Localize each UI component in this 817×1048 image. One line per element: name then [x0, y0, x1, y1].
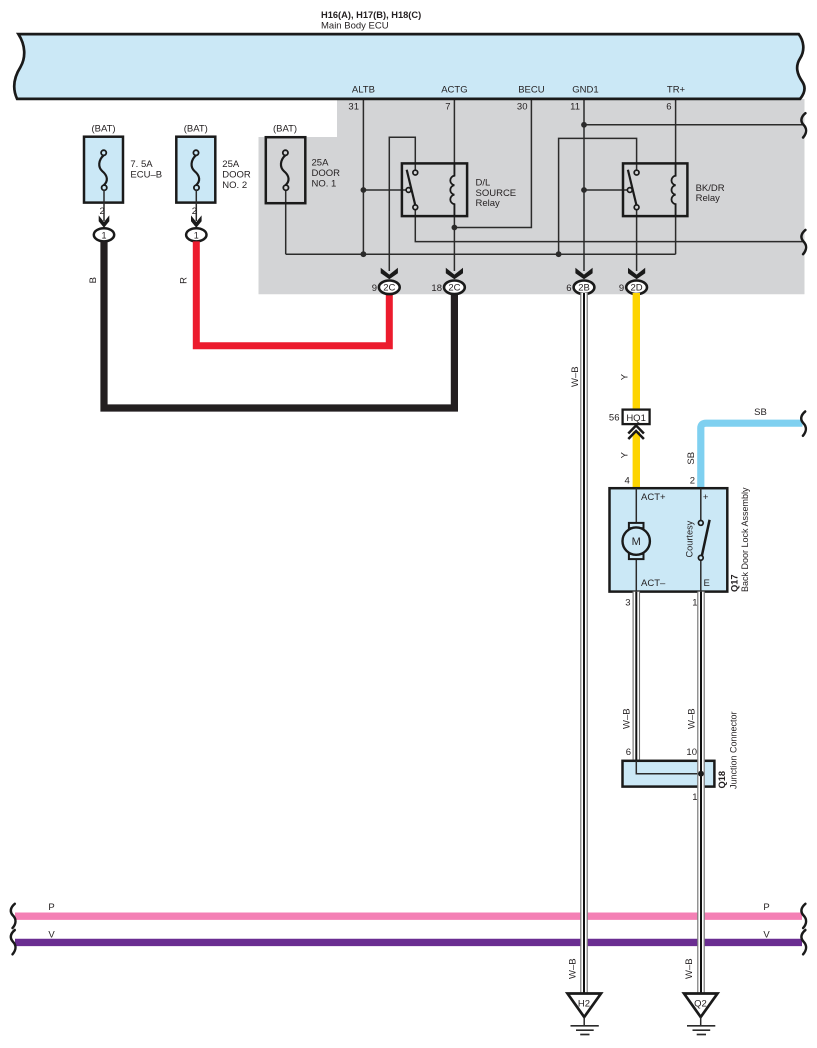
svg-text:(BAT): (BAT): [91, 123, 115, 134]
wire horizontal bus y=254 (fuse DOOR NO.1 / ALTB / BK-DR coil): [286, 253, 676, 255]
wire courtesy switch top lead: [700, 488, 702, 520]
svg-text:7. 5A: 7. 5A: [130, 159, 153, 170]
fuse F3 25A DOOR NO.1 box: [266, 137, 306, 203]
svg-text:11: 11: [570, 102, 580, 113]
wire W-B (2B pin6 to ground H2): [580, 293, 587, 994]
relay U1 switch blade: [407, 170, 415, 205]
motor M top brush cap: [629, 523, 644, 528]
svg-text:7: 7: [445, 102, 450, 113]
wire W-B (Q17 pin3 to Q18 pin6): [633, 592, 640, 761]
svg-text:V: V: [763, 929, 770, 940]
wire R thick (fuse F2 to 2C pin 9): [196, 241, 389, 345]
svg-text:9: 9: [619, 283, 624, 294]
svg-text:6: 6: [566, 283, 571, 294]
wire GND1 bus to right edge (exits page): [584, 124, 805, 126]
courtesy switch top contact: [698, 521, 703, 526]
svg-text:Relay: Relay: [696, 193, 721, 204]
wire D/L coil bottom / junction to 2C pin18: [453, 204, 455, 271]
connector oval 2C pin 9: [379, 281, 400, 295]
svg-text:H2: H2: [578, 998, 590, 1009]
wire SB thick (right edge to Q17 +): [701, 423, 803, 489]
relay U2 BK/DR Relay box: [623, 163, 687, 216]
break squiggle P left: [11, 904, 16, 928]
svg-text:1: 1: [692, 792, 697, 803]
relay U2 top contact: [634, 170, 639, 175]
relay U2 bottom contact: [634, 205, 639, 210]
motor M bottom brush cap: [629, 554, 644, 559]
wire F2 to connector: [195, 190, 197, 221]
svg-text:3: 3: [625, 597, 630, 608]
fuse F1 7.5A ECU-B box: [84, 137, 123, 203]
svg-text:10: 10: [686, 747, 697, 758]
svg-text:NO. 2: NO. 2: [222, 180, 247, 191]
break squiggle grey bus 2 right edge: [801, 230, 806, 254]
relay U1 movable contact: [406, 188, 411, 193]
fuse F1 element: [99, 155, 107, 185]
arrow into 2B pin 6: [575, 268, 592, 279]
Q17 Back Door Lock Assembly box: [610, 488, 728, 591]
svg-text:B: B: [88, 277, 99, 283]
wire W-B (Q17 pin1 through Q18 to ground Q2): [697, 592, 704, 994]
wire ALTB to D/L relay movable contact: [363, 189, 406, 191]
svg-text:Back Door Lock Assembly: Back Door Lock Assembly: [740, 487, 750, 592]
svg-text:30: 30: [517, 102, 528, 113]
wire fuse DOOR NO.1 drop to bus: [285, 190, 287, 254]
svg-text:E: E: [704, 578, 710, 589]
svg-text:(BAT): (BAT): [184, 123, 208, 134]
svg-text:Y: Y: [620, 451, 631, 458]
connector oval 1 (F1): [94, 228, 114, 241]
fuse F2 25A DOOR NO.2 box: [176, 137, 215, 203]
svg-text:Junction Connector: Junction Connector: [729, 711, 739, 789]
wire courtesy switch bottom lead: [700, 560, 702, 591]
ground Q2 triangle: [684, 994, 718, 1018]
connector HQ1 box: [623, 410, 650, 425]
connector oval 2C pin 18: [444, 281, 465, 295]
svg-text:SB: SB: [686, 452, 697, 465]
wire V thick (violet): [15, 939, 802, 946]
arrow into 2C pin 18: [446, 268, 463, 279]
arrow into 2D pin 9: [628, 268, 645, 279]
svg-text:DOOR: DOOR: [312, 168, 341, 179]
ground H2 symbol: [583, 1017, 585, 1026]
svg-text:6: 6: [626, 747, 631, 758]
svg-text:NO. 1: NO. 1: [312, 179, 337, 190]
relay U2 switch blade: [628, 170, 636, 205]
svg-text:25A: 25A: [312, 158, 330, 169]
svg-text:56: 56: [609, 413, 620, 424]
node junction inside Q18: [698, 771, 704, 777]
courtesy switch blade: [702, 520, 710, 556]
svg-text:+: +: [703, 492, 709, 503]
svg-text:GND1: GND1: [572, 85, 598, 96]
relay U1 top contact: [413, 170, 418, 175]
wire motor to ACT-: [635, 559, 637, 592]
svg-text:Relay: Relay: [476, 198, 501, 209]
svg-text:1: 1: [692, 597, 697, 608]
wire Y thick upper (2D to HQ1): [633, 293, 640, 411]
node junction GND1/BK-DR relay: [581, 187, 587, 193]
svg-text:ACT–: ACT–: [641, 578, 666, 589]
motor M body: [623, 527, 650, 554]
svg-text:4: 4: [625, 476, 630, 487]
svg-text:31: 31: [348, 102, 359, 113]
svg-text:Y: Y: [620, 373, 631, 380]
connector pass-through chevrons under HQ1: [628, 426, 644, 440]
connector oval 2B pin 6: [574, 281, 595, 295]
connector oval 2D pin 9: [626, 281, 647, 295]
relay U1 coil: [450, 164, 454, 217]
svg-text:HQ1: HQ1: [626, 413, 646, 424]
wire Y thick lower (HQ1 to Q17 ACT+): [633, 432, 640, 490]
svg-text:9: 9: [372, 283, 377, 294]
svg-text:6: 6: [666, 102, 671, 113]
relay U2 movable contact: [627, 188, 632, 193]
relay U1 bottom contact: [413, 205, 418, 210]
svg-text:W–B: W–B: [621, 708, 632, 729]
wire F1 to connector: [103, 190, 105, 221]
wire connector 2C pin9 riser to D/L relay top contact: [389, 137, 415, 271]
svg-text:V: V: [48, 929, 55, 940]
svg-text:2: 2: [100, 206, 105, 217]
node junction ALTB/bus: [361, 251, 367, 257]
arrow into connector 1 (F2): [191, 215, 202, 227]
svg-text:BECU: BECU: [518, 85, 545, 96]
svg-text:W–B: W–B: [568, 958, 579, 979]
wire BK/DR coil bottom elbow to bus: [675, 204, 677, 254]
Main Body ECU band: [14, 34, 804, 99]
node junction ALTB/relay: [361, 187, 367, 193]
wire BK/DR relay switch output to 2D: [636, 210, 638, 271]
svg-text:Q2: Q2: [694, 998, 707, 1009]
arrow into connector 1 (F1): [99, 215, 110, 227]
svg-text:ECU–B: ECU–B: [130, 170, 162, 181]
wire riser bus to BK/DR relay top contact: [559, 138, 637, 254]
svg-text:18: 18: [431, 283, 442, 294]
node junction riser/bus: [556, 251, 562, 257]
svg-text:2D: 2D: [631, 283, 643, 294]
wire B thick (fuse F1 to 2C pin 18): [104, 241, 454, 408]
svg-text:1: 1: [194, 230, 199, 240]
junction connector Q18 box: [623, 761, 715, 787]
svg-text:R: R: [178, 277, 189, 284]
svg-text:W–B: W–B: [686, 708, 697, 729]
wire D/L relay output bus to right edge (exits page): [415, 210, 804, 242]
svg-text:Q17: Q17: [730, 574, 740, 592]
wire ACTG pin 7 to D/L relay coil: [453, 99, 455, 176]
connector oval 1 (F2): [186, 228, 206, 241]
svg-text:DOOR: DOOR: [222, 170, 251, 181]
wire Q17 ACT+ to motor: [635, 488, 637, 523]
svg-text:Q18: Q18: [717, 771, 727, 789]
svg-text:P: P: [763, 902, 769, 913]
svg-text:2C: 2C: [383, 283, 395, 294]
ground H2 triangle: [568, 994, 602, 1018]
svg-text:Courtesy: Courtesy: [685, 520, 695, 557]
relay U1 D/L SOURCE Relay box: [402, 163, 467, 216]
svg-text:Main Body ECU: Main Body ECU: [321, 20, 389, 31]
svg-text:TR+: TR+: [667, 85, 686, 96]
svg-text:1: 1: [101, 230, 106, 240]
wire inside Q18: [636, 761, 701, 774]
svg-text:P: P: [48, 902, 54, 913]
svg-text:ACT+: ACT+: [641, 492, 666, 503]
svg-text:25A: 25A: [222, 159, 240, 170]
wire P thick (pink): [15, 913, 802, 920]
ground Q2 symbol: [700, 1017, 702, 1026]
svg-text:H16(A), H17(B), H18(C): H16(A), H17(B), H18(C): [321, 10, 421, 20]
svg-text:M: M: [632, 536, 641, 548]
svg-text:ALTB: ALTB: [352, 85, 375, 96]
courtesy switch bottom contact: [698, 555, 703, 560]
wire GND1 to BK/DR relay movable contact: [584, 189, 628, 191]
svg-text:2: 2: [192, 206, 197, 217]
break squiggle P right: [801, 904, 806, 928]
break squiggle grey bus 1 right edge: [801, 113, 806, 137]
wire GND1 pin 11 down to 2B: [583, 99, 585, 271]
wire TR+ pin 6 to BK/DR coil: [675, 99, 677, 176]
relay U2 coil: [671, 164, 675, 217]
fuse F2 element: [192, 155, 200, 185]
node junction GND1/right bus: [581, 122, 587, 128]
break squiggle V right: [801, 930, 806, 954]
svg-text:W–B: W–B: [684, 958, 695, 979]
Main Body ECU internal circuit area (grey panel): [259, 99, 805, 294]
fuse F3 element: [281, 155, 289, 185]
svg-text:W–B: W–B: [570, 366, 581, 387]
svg-text:2: 2: [690, 476, 695, 487]
svg-text:(BAT): (BAT): [273, 123, 297, 134]
break squiggle V left: [11, 930, 16, 954]
arrow into 2C pin 9: [381, 268, 398, 279]
node junction coil/BECU: [452, 225, 458, 231]
svg-text:2B: 2B: [578, 283, 590, 294]
svg-text:ACTG: ACTG: [441, 85, 467, 96]
wire BECU pin 30: [454, 99, 531, 228]
svg-text:2C: 2C: [448, 283, 460, 294]
svg-text:SB: SB: [754, 407, 767, 418]
break squiggle SB right edge: [801, 412, 806, 436]
wire ALTB pin 31: [362, 99, 364, 254]
